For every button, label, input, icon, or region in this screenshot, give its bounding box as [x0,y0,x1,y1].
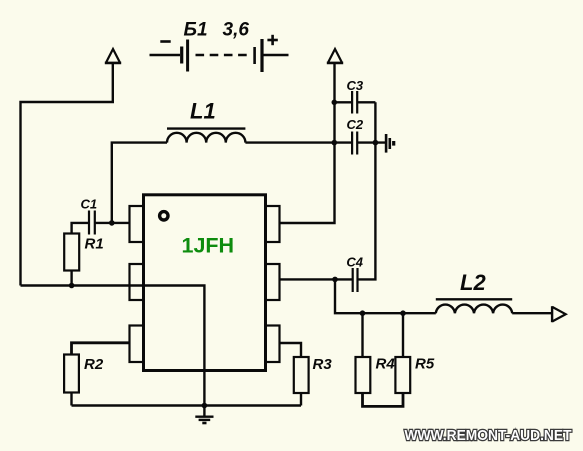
svg-text:C4: C4 [346,254,363,269]
svg-text:R1: R1 [85,236,104,253]
svg-text:R5: R5 [415,356,435,373]
svg-text:C2: C2 [347,117,364,132]
svg-text:1JFH: 1JFH [182,234,235,258]
svg-text:C1: C1 [81,197,98,212]
svg-text:L2: L2 [460,270,486,295]
svg-text:Б1: Б1 [184,20,208,41]
svg-text:WWW.REMONT-AUD.NET: WWW.REMONT-AUD.NET [405,427,572,444]
svg-text:R3: R3 [313,356,333,373]
svg-text:R2: R2 [84,356,104,373]
svg-text:R4: R4 [376,356,396,373]
svg-text:3,6: 3,6 [223,20,250,41]
svg-text:L1: L1 [190,99,216,124]
svg-text:C3: C3 [347,78,364,93]
